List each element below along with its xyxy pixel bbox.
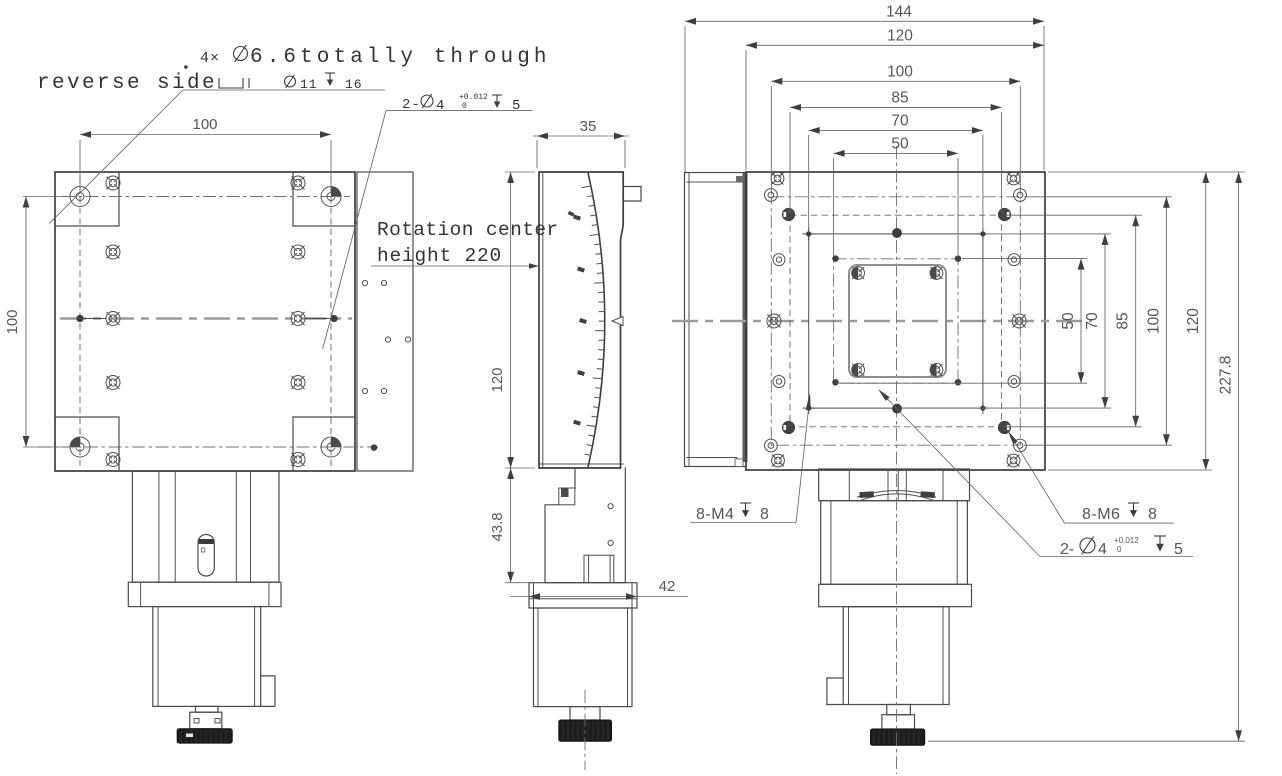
top motor bell <box>821 501 968 585</box>
front motor shaft <box>196 706 219 712</box>
dimension 43.8 side view <box>505 582 541 584</box>
front view pin hole mid-right <box>331 315 337 321</box>
side view right tab <box>624 187 641 202</box>
front view screw top-right <box>291 176 305 190</box>
svg-text:+0.012: +0.012 <box>459 93 488 102</box>
left column hole dark lower <box>782 421 794 433</box>
side block hole pair lower <box>362 388 367 393</box>
front view pin hole mid-left <box>77 315 83 321</box>
dimension 50 top <box>834 152 958 154</box>
side block hole pair upper <box>362 280 367 285</box>
pin cross 70 square bottom-left <box>803 407 814 409</box>
top motor flange <box>819 584 972 606</box>
side view arc ticks <box>582 186 591 188</box>
side block pin dot <box>371 445 377 451</box>
svg-text:120: 120 <box>489 367 506 392</box>
dimension 70 right <box>1104 234 1106 408</box>
dimension 85 top <box>790 106 1002 108</box>
side view pointer <box>612 317 623 326</box>
left column hole dark upper <box>782 208 794 220</box>
top view centerline horizontal <box>672 320 1092 322</box>
pin cross 70 square top-right <box>977 233 988 235</box>
right column hole upper <box>1008 254 1020 266</box>
front view screw row4 left <box>106 376 120 390</box>
front view centerline row middle <box>60 317 352 319</box>
svg-text:227.8: 227.8 <box>1218 356 1235 395</box>
top motor body <box>843 607 949 705</box>
dimension 70 top <box>809 129 983 131</box>
corner hole bottom-left <box>765 439 778 452</box>
front view corner notch top-right <box>293 172 355 226</box>
dimension 35 side view <box>536 140 538 168</box>
extension lines right dims <box>962 258 1087 260</box>
front view screw row2 left <box>106 245 120 259</box>
svg-text:50: 50 <box>891 136 909 153</box>
side motor centerline <box>584 690 586 770</box>
front view screw bottom-left <box>106 453 120 467</box>
dimension 100 right <box>1165 197 1167 445</box>
top motor shaft <box>887 705 911 715</box>
center pin hole top <box>893 229 902 238</box>
front motor flange <box>128 582 281 606</box>
corner hole top-right <box>1014 189 1027 202</box>
front view right side block <box>357 172 413 471</box>
svg-text:100: 100 <box>192 116 217 133</box>
svg-text:5: 5 <box>512 98 520 114</box>
svg-text:0: 0 <box>1117 545 1122 554</box>
front motor collar <box>190 712 222 729</box>
front view main plate <box>55 172 355 471</box>
leader 8-M6 <box>1008 431 1065 523</box>
side view leader curl mark <box>568 211 575 217</box>
corner screw bottom-right <box>1007 454 1020 467</box>
svg-text:height 220: height 220 <box>377 245 502 267</box>
front motor body <box>153 607 261 707</box>
leader rotation center <box>371 265 534 267</box>
dimension 100 top front view <box>79 140 81 190</box>
right column hole dark upper <box>998 208 1010 220</box>
svg-text:35: 35 <box>580 118 597 135</box>
platform screw top-right <box>930 267 943 280</box>
left edge center screw <box>767 314 781 328</box>
top motor centerline <box>896 474 898 774</box>
front view counterbore hole bottom-right <box>321 437 341 457</box>
front motor gearbox <box>132 471 279 582</box>
svg-text:4×: 4× <box>200 50 220 67</box>
corner screw bottom-left <box>772 454 785 467</box>
corner hole bottom-right <box>1014 439 1027 452</box>
front motor slot capsule <box>198 535 214 577</box>
svg-text:42: 42 <box>659 578 676 595</box>
front view counterbore hole bottom-left <box>70 437 90 457</box>
leader 2-dia4 bottom <box>886 398 1040 557</box>
top motor knob <box>871 729 925 745</box>
platform screw bottom-right <box>930 364 943 377</box>
right column hole lower <box>1008 376 1020 388</box>
platform screw top-left <box>852 267 865 280</box>
platform screw bottom-left <box>852 364 865 377</box>
dimension 100 left front view <box>23 196 76 198</box>
svg-text:8-M6: 8-M6 <box>1082 506 1120 523</box>
front view hidden line right column <box>330 176 332 467</box>
front view centerline row bottom <box>38 446 378 448</box>
svg-text:85: 85 <box>1115 312 1132 329</box>
svg-text:Rotation center: Rotation center <box>377 219 559 241</box>
svg-text:8: 8 <box>1148 506 1157 523</box>
svg-text:85: 85 <box>891 90 908 107</box>
front view screw row4 right <box>291 376 305 390</box>
front view counterbore hole top-right <box>321 187 341 207</box>
leader reverse side <box>184 65 188 69</box>
dimension 120 right <box>1205 172 1207 470</box>
svg-text:6.6totally through: 6.6totally through <box>250 46 551 69</box>
front view screw row2 right <box>291 245 305 259</box>
side view scale major marks <box>573 215 581 221</box>
pin dot 50 square bottom-right <box>955 380 961 386</box>
top motor collar <box>882 715 915 729</box>
dimension 50 right <box>1080 259 1082 384</box>
svg-text:8-M4: 8-M4 <box>696 506 734 523</box>
top motor step tab <box>827 678 843 705</box>
front motor step tab <box>261 676 275 707</box>
corner screw top-right <box>1007 172 1020 185</box>
dimension 120 top <box>746 44 1044 46</box>
front view screw bottom-right <box>291 453 305 467</box>
top view 50 square centerline box <box>834 259 958 383</box>
side view bracket step detail <box>559 488 575 505</box>
svg-text:5: 5 <box>1174 541 1183 558</box>
side view scale plate <box>539 172 623 468</box>
counterbore symbol <box>219 78 243 88</box>
front view counterbore hole top-left <box>70 187 90 207</box>
right column hole dark lower <box>998 421 1010 433</box>
svg-text:120: 120 <box>1185 308 1202 334</box>
top view 70 square <box>809 234 983 408</box>
front view corner notch top-left <box>55 172 119 226</box>
svg-text:4: 4 <box>436 98 444 114</box>
front motor knob <box>177 729 232 743</box>
side view plate bottom inner line <box>539 463 623 465</box>
side motor body <box>534 608 633 707</box>
svg-text:70: 70 <box>1084 312 1101 330</box>
front view hidden line left column <box>79 176 81 467</box>
svg-text:8: 8 <box>760 506 769 523</box>
top motor arc slot <box>860 494 935 501</box>
svg-text:100: 100 <box>1145 308 1162 334</box>
left column hole lower <box>773 376 785 388</box>
svg-text:100: 100 <box>4 309 21 334</box>
svg-text:2-: 2- <box>1060 541 1074 558</box>
side view bracket <box>545 468 625 583</box>
corner screw top-left <box>771 172 784 185</box>
front view screw top-left <box>106 176 120 190</box>
dimension 100 top view <box>771 80 1020 82</box>
leader 8-M4 <box>796 400 809 523</box>
svg-text:4: 4 <box>1098 541 1107 558</box>
svg-text:50: 50 <box>1060 312 1077 330</box>
side view bracket holes <box>608 504 613 509</box>
pin dot 50 square top-left <box>833 256 839 262</box>
svg-text:100: 100 <box>887 64 913 81</box>
right edge center screw <box>1012 314 1026 328</box>
dimension 42 side view <box>510 596 688 598</box>
side view vernier arc <box>588 173 605 468</box>
top motor mount section <box>819 469 970 501</box>
top view 100 square centerline box <box>771 197 1020 445</box>
top view 85 square hidden box <box>790 215 1002 427</box>
side motor shaft <box>570 707 600 720</box>
front view corner notch bottom-right <box>293 417 355 471</box>
dimension 120 side view <box>505 171 535 173</box>
side view bracket slot <box>583 555 585 582</box>
dimension 85 right <box>1135 215 1137 427</box>
front view screw mid right <box>291 312 305 326</box>
top view left block dark edge <box>743 173 748 463</box>
svg-text:+0.012: +0.012 <box>1114 536 1139 545</box>
svg-text:43.8: 43.8 <box>489 512 506 541</box>
svg-text:0: 0 <box>462 102 467 111</box>
front view screw mid left <box>106 312 120 326</box>
top view centerline vertical <box>896 146 898 474</box>
side motor flange <box>529 583 637 608</box>
extension lines top dims <box>684 26 686 172</box>
front view corner notch bottom-left <box>55 417 119 471</box>
svg-text:70: 70 <box>891 113 909 130</box>
pin dot 50 square bottom-left <box>833 380 839 386</box>
side motor knob <box>559 720 612 741</box>
top view left block <box>685 173 747 467</box>
leader 2-dia4 top <box>386 110 532 112</box>
svg-text:reverse side: reverse side <box>37 72 217 95</box>
dimension 144 <box>685 20 1044 22</box>
center pin hole bottom <box>893 404 902 413</box>
top view main plate <box>746 172 1045 470</box>
side block hole pair middle <box>385 337 390 342</box>
pin cross 70 square bottom-right <box>977 407 988 409</box>
top view platform rounded square <box>849 265 946 377</box>
pin dot 50 square top-right <box>955 256 961 262</box>
pin cross 70 square top-left <box>803 233 814 235</box>
svg-text:144: 144 <box>886 4 912 21</box>
corner hole top-left <box>765 189 778 202</box>
svg-text:120: 120 <box>887 28 913 45</box>
left column hole upper <box>773 254 785 266</box>
front view centerline row top <box>62 196 350 198</box>
dimension 227.8 right <box>1238 172 1240 741</box>
